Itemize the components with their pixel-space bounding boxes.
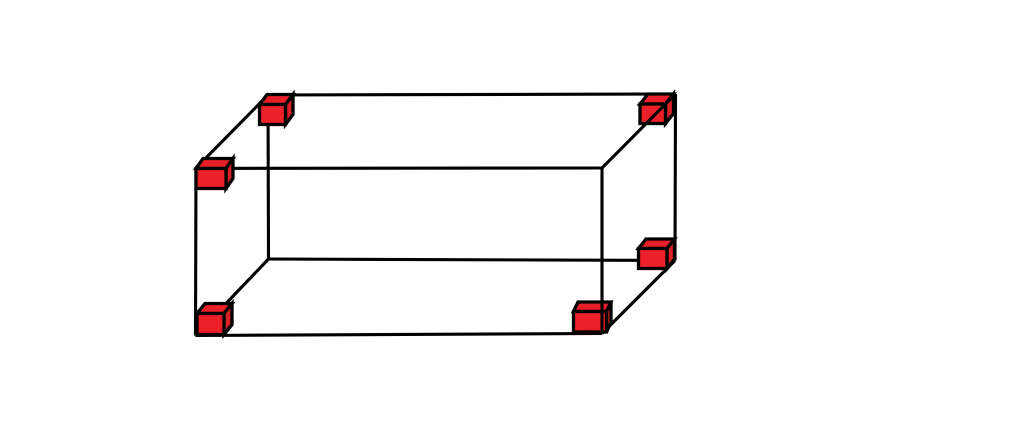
wire: back right vertical edge BTR-BBR bbox=[673, 94, 677, 261]
corner cube: back-top-left bbox=[260, 95, 294, 125]
wire: top front edge FTL-FTR bbox=[196, 166, 602, 169]
corner cube: back-bottom-right bbox=[639, 239, 675, 269]
corner cube: front-bottom-right bbox=[574, 302, 612, 332]
wire: top left depth edge FTL-BTL bbox=[196, 95, 268, 168]
wire: bottom back edge BBL-BBR bbox=[269, 259, 676, 261]
corner cube: front-bottom-left bbox=[197, 304, 232, 335]
wire: front left vertical edge FTL-FBL bbox=[194, 168, 198, 336]
wire: bottom left depth edge BBL-FBL bbox=[196, 259, 269, 336]
wire: back left vertical edge BTL-BBL bbox=[266, 95, 270, 259]
wire: top right depth edge FTR-BTR drawn over back-top-right cube bbox=[602, 94, 676, 168]
wire: front right vertical edge FTR-FBR drawn over front-bottom-right cube bbox=[600, 168, 603, 334]
corner cube: back-top-right bbox=[640, 94, 674, 124]
corner cube: front-top-left bbox=[196, 159, 233, 189]
wire: bottom front edge FBL-FBR bbox=[196, 334, 603, 336]
wire: bottom right depth edge FBR-BBR bbox=[602, 261, 675, 334]
wire: top back edge BTL-BTR bbox=[268, 94, 676, 95]
